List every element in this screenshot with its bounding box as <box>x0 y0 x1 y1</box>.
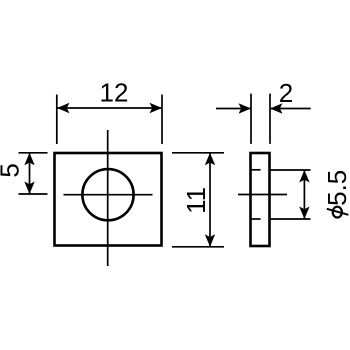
svg-text:5: 5 <box>0 163 25 177</box>
vertical center line <box>107 130 109 266</box>
svg-text:12: 12 <box>100 77 129 107</box>
dim 12 extension line left <box>56 95 58 145</box>
dim 12 dimension line <box>57 107 162 109</box>
dim 2 leader right <box>270 108 311 110</box>
dim 5 extension line top <box>19 152 48 154</box>
dim 5 arrow down <box>24 182 34 195</box>
dim 11 extension line top <box>172 152 224 154</box>
dim 12 arrow left <box>57 103 70 113</box>
horizontal center line <box>64 194 153 196</box>
dim 11 dimension line <box>209 153 211 247</box>
hidden hole edge tick bottom <box>251 218 261 220</box>
dim 2 arrow (points right) <box>239 103 252 113</box>
dim 12 arrow right <box>150 103 163 113</box>
dim 2 extension line left <box>250 94 252 144</box>
dim 11 arrow up <box>205 153 215 166</box>
dim phi5.5 arrow down <box>299 207 309 220</box>
dim 2 leader left <box>216 108 251 110</box>
dim 11 arrow down <box>205 234 215 247</box>
dim 2 arrow (points left) <box>270 103 283 113</box>
side view outline <box>251 153 270 246</box>
dim 11 extension line bottom <box>172 246 224 248</box>
label phi5.5 diameter symbol slash <box>327 209 349 215</box>
dim phi5.5 dimension line <box>303 170 305 219</box>
svg-text:2: 2 <box>279 78 293 108</box>
hidden hole edge tick top <box>251 169 261 171</box>
dim 5 arrow up <box>24 153 34 166</box>
dim phi5.5 extension line top <box>270 169 311 171</box>
svg-text:11: 11 <box>181 187 211 214</box>
dim 5 extension line bottom <box>19 193 48 195</box>
hole circle <box>82 169 133 220</box>
plate outline (front view) <box>55 153 162 246</box>
dim phi5.5 arrow up <box>299 170 309 183</box>
dim 2 extension line right <box>269 94 271 144</box>
dim phi5.5 extension line bottom <box>270 218 311 220</box>
dim 5 dimension line <box>29 153 31 194</box>
side view center line <box>238 194 287 196</box>
dim 12 extension line right <box>161 95 163 145</box>
svg-text:5.5: 5.5 <box>322 170 350 206</box>
label phi5.5 diameter symbol circle <box>333 207 342 218</box>
